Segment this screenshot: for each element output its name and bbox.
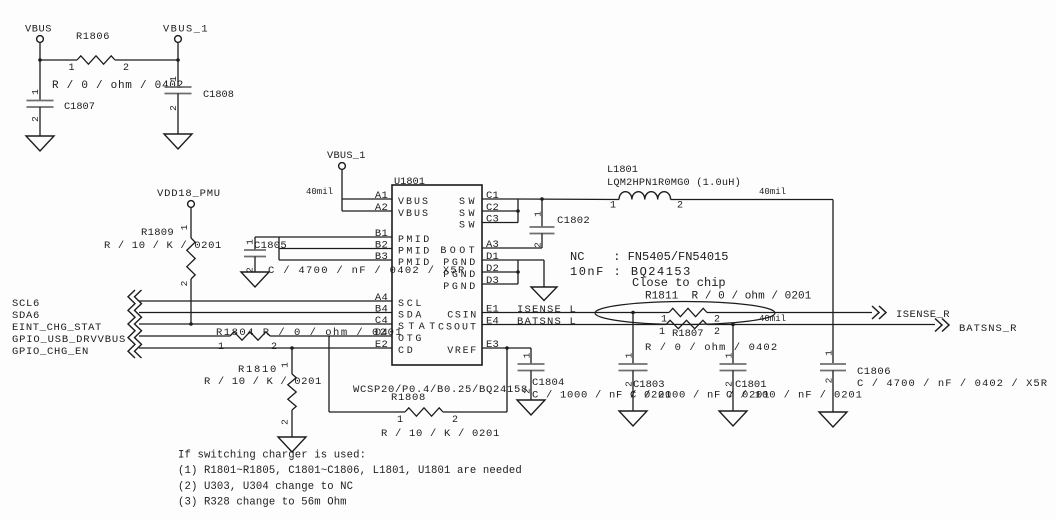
svg-text:E3: E3 <box>486 339 499 351</box>
resistor R1808 <box>329 336 507 440</box>
pin E2 CD <box>375 339 416 357</box>
ground <box>819 412 847 427</box>
svg-text:Close to chip: Close to chip <box>632 276 726 290</box>
svg-text:2: 2 <box>824 377 835 383</box>
capacitor C1806 <box>820 350 1048 412</box>
svg-text:D3: D3 <box>486 275 499 287</box>
wire pin E3 VREF <box>482 347 531 349</box>
resistor R1804 <box>216 327 403 353</box>
svg-text:2: 2 <box>624 381 635 387</box>
svg-text:2: 2 <box>123 63 129 74</box>
svg-text:CSIN: CSIN <box>447 310 478 321</box>
svg-text:D1: D1 <box>486 251 499 263</box>
svg-text:1: 1 <box>245 239 256 245</box>
svg-text:C1804: C1804 <box>532 377 565 389</box>
svg-text:B4: B4 <box>375 304 388 316</box>
svg-text:VREF: VREF <box>447 346 478 357</box>
svg-text:STAT: STAT <box>398 322 440 333</box>
junction <box>631 311 635 315</box>
svg-text:E4: E4 <box>486 316 499 328</box>
svg-text:R1807: R1807 <box>672 328 704 340</box>
svg-text:PGND: PGND <box>443 282 478 293</box>
svg-text:BATSNS_R: BATSNS_R <box>959 323 1017 335</box>
note Close to chip <box>595 276 775 325</box>
junction <box>290 346 294 350</box>
wire <box>39 43 41 61</box>
svg-text:C2: C2 <box>486 202 499 214</box>
wire <box>177 43 179 61</box>
svg-text:(2) U303, U304 change to NC: (2) U303, U304 change to NC <box>178 481 353 493</box>
svg-text:R / 10 / K / 0201: R / 10 / K / 0201 <box>204 376 322 388</box>
wire <box>270 335 392 337</box>
svg-text:2: 2 <box>724 381 735 387</box>
svg-text:1: 1 <box>659 327 665 338</box>
svg-text:C4: C4 <box>375 315 388 327</box>
svg-text:2: 2 <box>280 419 291 425</box>
svg-text:1: 1 <box>168 76 179 82</box>
wire pgnd bus <box>517 260 519 284</box>
svg-text:SDA6: SDA6 <box>12 310 40 322</box>
svg-text:C / 1000 / nF / 0201: C / 1000 / nF / 0201 <box>532 390 672 402</box>
wire pin D2 <box>482 271 518 273</box>
off-page ISENSE_R <box>872 306 950 321</box>
svg-text:40mil: 40mil <box>759 314 786 324</box>
svg-text:(3) R328 change to 56m Ohm: (3) R328 change to 56m Ohm <box>178 497 347 509</box>
node VBUS_1 <box>327 150 366 169</box>
wire <box>671 199 833 201</box>
wire SDA6 <box>139 312 392 314</box>
wire pin B3 <box>279 259 392 261</box>
svg-text:C1805: C1805 <box>254 240 287 252</box>
svg-text:EINT_CHG_STAT: EINT_CHG_STAT <box>12 322 102 334</box>
wire GPIO_USB_DRVVBUS <box>139 335 230 337</box>
svg-text:R / 0 / ohm / 0402: R / 0 / ohm / 0402 <box>52 80 184 92</box>
capacitor C1803 <box>619 313 771 412</box>
junction <box>38 58 42 62</box>
svg-text:2: 2 <box>533 242 544 248</box>
svg-text:VDD18_PMU: VDD18_PMU <box>157 188 221 200</box>
wire pin A2 <box>342 210 392 212</box>
node VDD18_PMU <box>157 188 221 207</box>
wire <box>518 259 544 261</box>
wire <box>543 260 545 287</box>
wire pin A1 <box>342 198 392 200</box>
pin A1 VBUS <box>375 190 430 208</box>
resistor R1810 <box>204 348 322 437</box>
junction <box>505 346 509 350</box>
wire pin A3 BOOT <box>482 247 542 249</box>
ground <box>619 411 647 426</box>
svg-text:VBUS_1: VBUS_1 <box>163 24 209 36</box>
wire EINT_CHG_STAT <box>139 323 392 325</box>
svg-text:E2: E2 <box>375 339 388 351</box>
wire pin B2 <box>279 248 392 250</box>
capacitor C1808 <box>165 60 234 134</box>
pin B3 PMID <box>375 251 432 269</box>
junction <box>189 322 193 326</box>
svg-text:1: 1 <box>724 352 735 358</box>
pin E4 CSOUT <box>438 316 499 334</box>
svg-text:B2: B2 <box>375 240 388 252</box>
wire pin D3 <box>482 283 518 285</box>
off-page BATSNS_R <box>935 319 1017 336</box>
ground <box>517 400 545 415</box>
pin A2 VBUS <box>375 202 430 220</box>
pin D4 OTG <box>375 327 424 345</box>
svg-text:1: 1 <box>280 362 291 368</box>
wire <box>115 59 178 61</box>
svg-text:2: 2 <box>30 116 41 122</box>
wire pmid bus <box>278 237 280 260</box>
wire pin C2 <box>482 210 518 212</box>
svg-text:SW: SW <box>459 209 478 220</box>
svg-text:2: 2 <box>168 105 179 111</box>
svg-text:SCL6: SCL6 <box>12 298 40 310</box>
capacitor C1804 <box>518 348 673 402</box>
svg-text:R1809: R1809 <box>141 227 174 239</box>
svg-text:(1) R1801~R1805, C1801~C1806,: (1) R1801~R1805, C1801~C1806, L1801, U18… <box>178 465 522 477</box>
svg-text:WCSP20/P0.4/B0.25/BQ24158: WCSP20/P0.4/B0.25/BQ24158 <box>353 384 528 396</box>
svg-text:1: 1 <box>624 352 635 358</box>
svg-text:R / 10 / K / 0201: R / 10 / K / 0201 <box>381 428 500 440</box>
pin A3 BOOT <box>440 239 499 257</box>
pin C2 SW <box>459 202 499 220</box>
svg-text:GPIO_USB_DRVVBUS: GPIO_USB_DRVVBUS <box>12 334 126 346</box>
svg-text:40mil: 40mil <box>759 187 786 197</box>
svg-text:C1807: C1807 <box>64 101 95 113</box>
svg-text:2: 2 <box>677 201 683 212</box>
wire SW to sense <box>832 200 834 364</box>
resistor R1809 <box>104 208 222 325</box>
resistor R1811 <box>645 291 812 326</box>
capacitor C1802 <box>530 199 591 248</box>
pin C1 SW <box>459 190 499 208</box>
svg-text:SCL: SCL <box>398 299 424 310</box>
svg-text:2: 2 <box>179 280 190 286</box>
svg-text:A3: A3 <box>486 239 499 251</box>
svg-text:C / 4700 / nF / 0402 / X5R: C / 4700 / nF / 0402 / X5R <box>857 378 1048 390</box>
wire <box>40 59 77 61</box>
svg-text:SW: SW <box>459 220 478 231</box>
svg-text:VBUS: VBUS <box>398 209 430 220</box>
wire pin C1 <box>482 198 518 200</box>
wire pin C3 <box>482 222 518 224</box>
pin B1 PMID <box>375 228 432 246</box>
svg-text:2: 2 <box>452 415 458 426</box>
svg-text:1: 1 <box>179 224 190 230</box>
svg-text:CSOUT: CSOUT <box>438 322 478 333</box>
pin D1 PGND <box>443 251 499 269</box>
wire SW node <box>518 198 619 201</box>
svg-text:1: 1 <box>30 89 41 95</box>
svg-text:BATSNS_L: BATSNS_L <box>517 316 577 328</box>
svg-text:R1804 R / 0 / ohm / 0201: R1804 R / 0 / ohm / 0201 <box>216 327 403 339</box>
wire pin B1 <box>255 236 392 238</box>
svg-text:R1810: R1810 <box>238 364 278 376</box>
svg-text:1: 1 <box>522 352 533 358</box>
pin C4 STAT <box>375 315 440 333</box>
wire GPIO_CHG_EN <box>139 347 392 349</box>
svg-text:C1: C1 <box>486 190 499 202</box>
wire <box>707 324 935 326</box>
svg-text:R / 10 / K / 0201: R / 10 / K / 0201 <box>104 240 222 252</box>
node VBUS_1 <box>163 24 209 43</box>
svg-text:SDA: SDA <box>398 310 424 321</box>
bus entry zigzag <box>128 290 142 358</box>
svg-text:A4: A4 <box>375 292 388 304</box>
pin B4 SDA <box>375 304 424 322</box>
inductor L1801 <box>607 164 741 212</box>
svg-text:VBUS_1: VBUS_1 <box>327 150 366 162</box>
pin E1 CSIN <box>447 304 499 322</box>
resistor R1806 <box>52 31 184 92</box>
svg-text:If switching charger is used:: If switching charger is used: <box>178 450 366 462</box>
capacitor C1805 <box>244 237 466 277</box>
svg-text:1: 1 <box>69 63 75 74</box>
pin A4 SCL <box>375 292 424 310</box>
svg-text:L1801: L1801 <box>607 164 638 176</box>
junction <box>516 270 520 274</box>
wire sw bus <box>517 199 519 223</box>
ground <box>164 134 192 149</box>
pin B2 PMID <box>375 240 432 258</box>
capacitor C1807 <box>27 60 95 136</box>
svg-text:B1: B1 <box>375 228 388 240</box>
svg-text:SW: SW <box>459 197 478 208</box>
svg-text:LQM2HPN1R0MG0 (1.0uH): LQM2HPN1R0MG0 (1.0uH) <box>607 177 741 189</box>
svg-text:PMID: PMID <box>398 235 432 246</box>
node VBUS <box>25 24 52 43</box>
ground <box>719 411 747 426</box>
wire BATSNS <box>482 324 666 326</box>
svg-text:1: 1 <box>610 201 616 212</box>
svg-text:R / 0 / ohm / 0402: R / 0 / ohm / 0402 <box>645 342 778 354</box>
svg-text:R1811 R / 0 / ohm / 0201: R1811 R / 0 / ohm / 0201 <box>645 291 812 303</box>
wire ISENSE <box>482 312 669 314</box>
svg-text:C3: C3 <box>486 214 499 226</box>
svg-text:C / 100 / nF / 0201: C / 100 / nF / 0201 <box>726 390 863 402</box>
pin C3 SW <box>459 214 499 232</box>
svg-text:VBUS: VBUS <box>398 197 430 208</box>
pin D2 PGND <box>443 263 499 281</box>
ground <box>531 287 557 301</box>
svg-text:CD: CD <box>398 346 415 357</box>
svg-text:PMID: PMID <box>398 246 432 257</box>
junction <box>731 323 735 327</box>
svg-text:GPIO_CHG_EN: GPIO_CHG_EN <box>12 346 89 358</box>
IC U1801 <box>392 176 482 365</box>
wire <box>341 170 343 212</box>
ground <box>278 437 306 452</box>
svg-text:C1802: C1802 <box>557 215 590 227</box>
svg-text:B3: B3 <box>375 251 388 263</box>
capacitor C1801 <box>720 325 863 412</box>
wire pin D1 <box>482 259 518 261</box>
pin D3 PGND <box>443 275 499 293</box>
svg-text:2: 2 <box>714 327 720 338</box>
svg-text:C1808: C1808 <box>203 89 234 101</box>
svg-text:C1806: C1806 <box>857 366 891 378</box>
svg-text:VBUS: VBUS <box>25 24 52 36</box>
wire SCL6 <box>139 300 392 302</box>
svg-text:1: 1 <box>533 211 544 217</box>
svg-text:A1: A1 <box>375 190 388 202</box>
ground <box>241 272 269 287</box>
wire <box>707 312 872 314</box>
junction <box>540 197 544 201</box>
svg-text:D2: D2 <box>486 263 499 275</box>
junction <box>176 58 180 62</box>
svg-text:ISENSE_L: ISENSE_L <box>517 304 577 316</box>
svg-text:E1: E1 <box>486 304 499 316</box>
pin E3 VREF <box>447 339 499 357</box>
ground <box>26 136 54 151</box>
svg-text:40mil: 40mil <box>306 187 333 197</box>
svg-text:1: 1 <box>397 415 403 426</box>
svg-text:BOOT: BOOT <box>440 246 478 257</box>
svg-text:R1806: R1806 <box>76 31 110 43</box>
svg-text:C / 4700 / nF / 0402 / X5R: C / 4700 / nF / 0402 / X5R <box>268 265 466 277</box>
svg-text:NC : FN5405/FN54015: NC : FN5405/FN54015 <box>570 250 728 264</box>
svg-text:1: 1 <box>824 350 835 356</box>
svg-text:U1801: U1801 <box>394 176 425 188</box>
junction <box>516 209 520 213</box>
resistor R1807 <box>645 320 778 354</box>
svg-text:A2: A2 <box>375 202 388 214</box>
